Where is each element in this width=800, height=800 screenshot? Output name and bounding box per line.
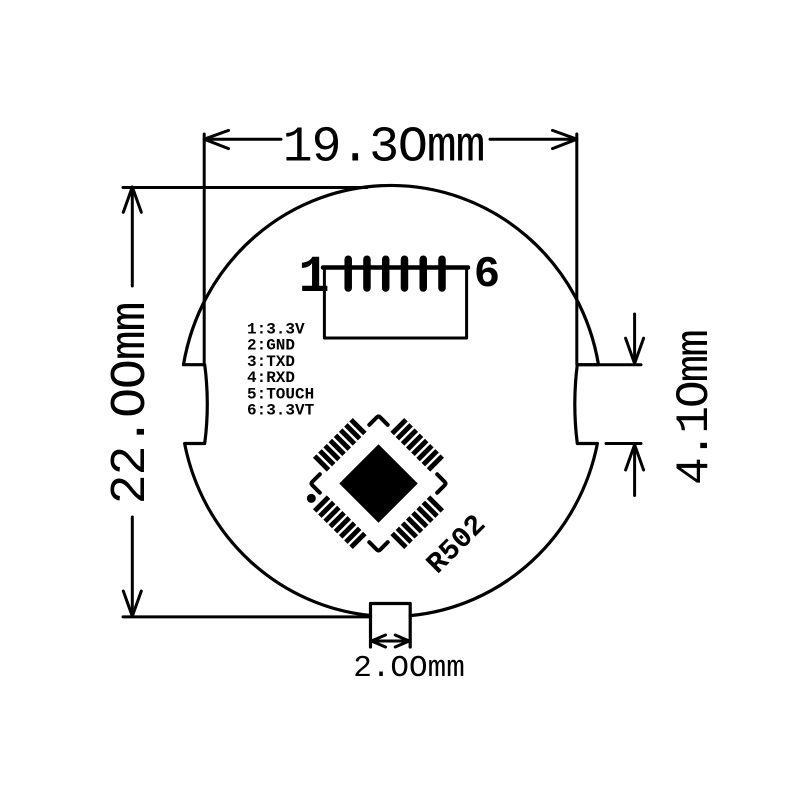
- left head: [372, 635, 386, 647]
- svg-text:2.OOmm: 2.OOmm: [353, 651, 465, 686]
- connector box: [324, 268, 466, 339]
- right extension line: [575, 134, 578, 365]
- pins top side: [392, 420, 442, 470]
- bottom tab: [371, 604, 411, 648]
- bottom extension line: [123, 615, 371, 618]
- silkscreen corner top-right: [428, 474, 446, 492]
- top extension line: [123, 186, 367, 189]
- dim line right part: [490, 138, 577, 141]
- svg-text:4.1Omm: 4.1Omm: [669, 331, 721, 485]
- chip U1 (QFP footprint rotated 45deg): [287, 392, 469, 574]
- svg-text:1: 1: [298, 248, 329, 307]
- svg-text:6:3.3VT: 6:3.3VT: [247, 402, 315, 420]
- lower arrow line: [633, 445, 636, 496]
- pins right side: [392, 497, 442, 547]
- svg-text:19.3Omm: 19.3Omm: [283, 120, 485, 177]
- pin 1 dot: [305, 492, 318, 505]
- silkscreen corner bottom-left: [311, 474, 329, 492]
- dimension: 2.00mm bottom tab: [372, 635, 410, 647]
- double arrow line: [372, 640, 410, 643]
- left extension line: [203, 134, 206, 365]
- dimension: 19.30mm top width: [204, 130, 577, 364]
- silkscreen corner bottom-right: [369, 533, 387, 551]
- connector pin 3: [382, 259, 390, 288]
- connector pin 2: [363, 259, 371, 288]
- pins bottom side: [315, 497, 365, 547]
- connector pin 6: [438, 259, 446, 288]
- connector box top edge (thicker): [323, 265, 468, 270]
- up arrow: [123, 187, 141, 212]
- connector pin 1: [344, 259, 352, 288]
- pins left side: [315, 420, 365, 470]
- svg-text:22.OOmm: 22.OOmm: [103, 303, 160, 505]
- down arrow: [123, 591, 141, 616]
- upper arrow line: [633, 314, 636, 364]
- left arrow: [204, 130, 228, 148]
- bottom extension line: [606, 442, 641, 445]
- dim line lower part: [131, 517, 134, 616]
- module outline: circle with left/right notches: [184, 185, 599, 615]
- dim line left part: [204, 138, 281, 141]
- right arrow: [553, 130, 577, 148]
- dimension: 4.10mm right notch: [577, 314, 643, 496]
- connector pin 5: [419, 259, 427, 288]
- pin list labels: [247, 321, 315, 420]
- die: [339, 444, 417, 522]
- dimension: 22.00mm left height: [123, 187, 371, 617]
- upper arrow head: [626, 338, 644, 363]
- dim line upper part: [131, 187, 134, 286]
- right head: [395, 635, 409, 647]
- connector pin 4: [401, 259, 409, 288]
- svg-text:6: 6: [474, 250, 500, 300]
- lower arrow head: [626, 445, 644, 470]
- silkscreen corner top-left: [369, 416, 387, 434]
- top extension line: [577, 363, 641, 366]
